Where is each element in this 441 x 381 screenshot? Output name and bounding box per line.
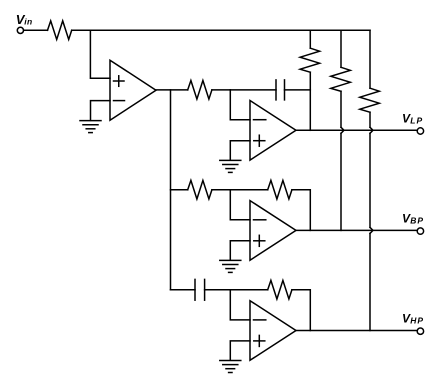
wire C2 to node F: [205, 289, 231, 291]
label VHP: [402, 311, 424, 325]
resistor R6: [188, 180, 212, 199]
wire node F to R8: [230, 289, 267, 291]
wire C1 to node D: [285, 89, 311, 91]
resistor R2: [188, 81, 212, 100]
wire top rail corner to R5: [369, 30, 371, 88]
ground GND1: [80, 121, 101, 133]
resistor R7: [268, 180, 292, 199]
wire R1 to node A: [72, 29, 90, 31]
wire U1 - input to ground: [91, 101, 111, 121]
op-amp U2: [250, 101, 296, 161]
resistor R3: [300, 48, 320, 72]
wire U2 + input to ground: [230, 141, 250, 161]
wire U3 output to VBP terminal: [296, 229, 417, 231]
wire R4 crossing VLP to VBP: [341, 91, 344, 230]
wire node E to U3 - input: [230, 190, 250, 220]
terminal Vin: [17, 27, 23, 33]
wire top rail to R4: [340, 30, 342, 67]
capacitor C1: [276, 80, 285, 100]
node A / top rail: [90, 29, 370, 31]
capacitor C2: [195, 279, 205, 300]
wire U4 + input to ground: [230, 341, 250, 360]
ground GND3: [220, 260, 241, 272]
node B junction: [170, 90, 172, 290]
resistor R1: [48, 21, 72, 40]
terminal VHP: [417, 328, 423, 334]
wire U2 output to VLP terminal: [296, 129, 417, 131]
wire node A to U1 + input: [90, 30, 110, 78]
wire R3 to VLP line: [309, 72, 311, 130]
wire node C to U2 - input: [230, 90, 250, 120]
terminal VBP: [417, 228, 423, 234]
wire R7 to U3 output: [292, 190, 310, 231]
wire R5 crossing VLP and VBP to VHP: [370, 112, 373, 330]
wire R6 to node E: [212, 189, 230, 191]
svg-text:HP: HP: [410, 316, 424, 326]
resistor R4: [331, 67, 351, 91]
wire Vin to R1: [24, 29, 48, 31]
resistor R8: [268, 280, 292, 299]
wire U4 output to VHP terminal: [296, 330, 417, 332]
terminal VLP: [417, 128, 423, 134]
label VBP: [402, 211, 424, 225]
wire node B to R6: [171, 189, 188, 191]
wire top rail to R3: [309, 30, 311, 48]
svg-text:BP: BP: [410, 216, 424, 226]
op-amp U1: [110, 60, 156, 120]
wire U3 + input to ground: [230, 241, 250, 260]
svg-text:in: in: [24, 17, 33, 27]
wire node B corner to C2: [171, 289, 196, 291]
op-amp U3: [250, 201, 296, 261]
label Vin: [16, 12, 33, 27]
wire U1 output to R2: [156, 89, 188, 91]
wire node C to C1: [230, 89, 276, 91]
label VLP: [402, 111, 423, 125]
ground GND2: [220, 160, 241, 172]
op-amp U4: [250, 301, 296, 361]
resistor R5: [360, 88, 380, 112]
svg-text:LP: LP: [410, 116, 423, 126]
ground GND4: [220, 361, 241, 373]
wire node E to R7: [230, 189, 267, 191]
wire R8 to U4 output: [292, 290, 310, 331]
wire node F to U4 - input: [230, 290, 250, 320]
wire R2 to node C: [212, 89, 230, 91]
